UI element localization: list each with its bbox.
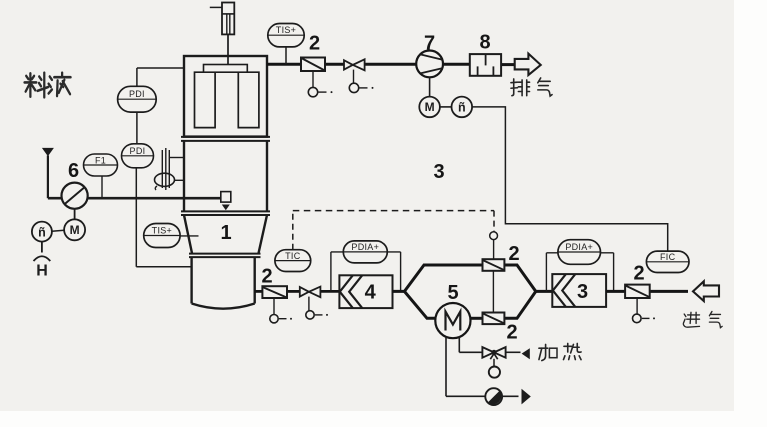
svg-text:3: 3 xyxy=(433,161,444,183)
svg-text:M: M xyxy=(425,100,435,114)
svg-text:TIS+: TIS+ xyxy=(276,25,296,35)
svg-text:4: 4 xyxy=(365,282,377,304)
svg-text:M: M xyxy=(70,223,80,237)
svg-text:8: 8 xyxy=(479,31,490,53)
svg-text:2: 2 xyxy=(506,322,517,344)
svg-text:ñ: ñ xyxy=(458,101,466,115)
svg-text:2: 2 xyxy=(309,32,320,54)
svg-text:6: 6 xyxy=(68,160,79,182)
svg-text:ñ: ñ xyxy=(38,225,46,239)
svg-text:7: 7 xyxy=(424,33,435,55)
svg-text:2: 2 xyxy=(261,266,272,288)
svg-text:H: H xyxy=(36,263,48,280)
svg-text:FIC: FIC xyxy=(660,252,676,262)
svg-text:TIC: TIC xyxy=(285,251,301,261)
svg-text:PDI: PDI xyxy=(129,89,145,99)
svg-text:F1: F1 xyxy=(95,156,106,166)
svg-text:3: 3 xyxy=(577,281,588,303)
svg-text:2: 2 xyxy=(508,243,519,265)
svg-text:2: 2 xyxy=(633,263,644,285)
svg-text:TIS+: TIS+ xyxy=(152,226,172,236)
svg-text:PDIA+: PDIA+ xyxy=(351,242,379,252)
svg-text:1: 1 xyxy=(220,222,231,244)
svg-text:PDIA+: PDIA+ xyxy=(565,242,593,252)
svg-text:PDI: PDI xyxy=(130,146,146,156)
svg-text:5: 5 xyxy=(447,282,458,304)
